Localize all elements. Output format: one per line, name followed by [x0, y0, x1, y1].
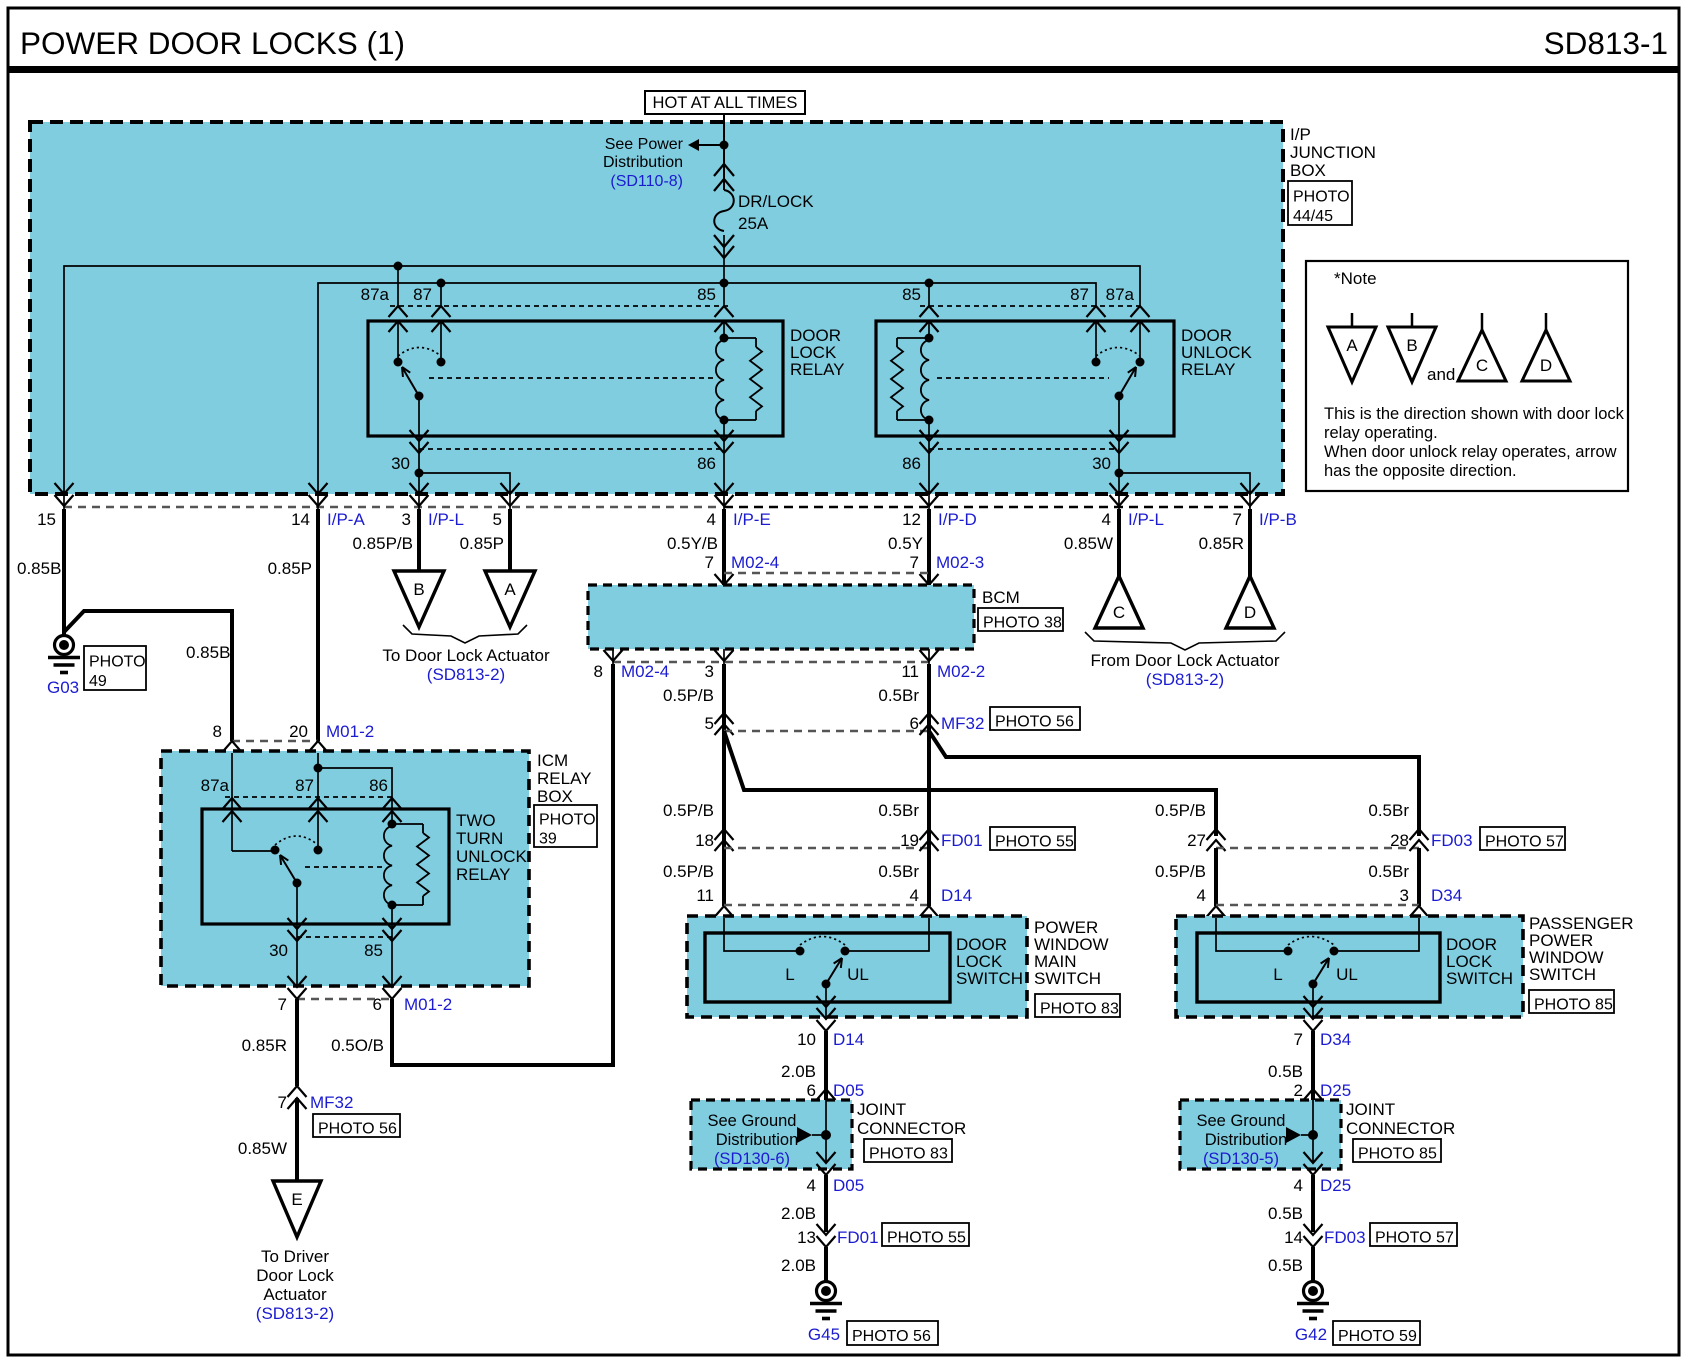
wire: D25 to FD03 [1311, 1175, 1315, 1232]
wire: D14 to D05 [824, 1031, 828, 1100]
PHOTO 55 box (FD01) [990, 827, 1075, 850]
svg-text:PHOTO 85: PHOTO 85 [1358, 1145, 1437, 1162]
PHOTO 59 box (G42) [1333, 1321, 1420, 1345]
svg-text:To Door Lock Actuator: To Door Lock Actuator [382, 646, 550, 665]
door lock actuator arrow D [1226, 576, 1274, 628]
svg-text:HOT AT ALL TIMES: HOT AT ALL TIMES [653, 94, 798, 112]
wire: branch 6 to passenger switch [929, 731, 1419, 836]
svg-text:D05: D05 [833, 1081, 864, 1100]
wire: through joint connector left [825, 1090, 827, 1163]
passenger switch UL contact [1330, 947, 1339, 956]
wire: relay2 87a to contact [1139, 321, 1141, 362]
relay1 coil bottom node [720, 416, 729, 425]
svg-text:(SD110-8): (SD110-8) [610, 173, 683, 190]
relay1 pin 30 connector [410, 430, 429, 441]
svg-text:7: 7 [278, 1093, 287, 1112]
passenger switch output arrow [1304, 996, 1323, 1007]
svg-text:0.5Y: 0.5Y [888, 534, 923, 553]
connector 13 FD01 [817, 1224, 836, 1235]
svg-text:PHOTO 56: PHOTO 56 [995, 713, 1074, 730]
svg-text:G42: G42 [1295, 1325, 1327, 1344]
wire: ICM 8 0.85B to ground [64, 611, 232, 741]
svg-text:I/P-D: I/P-D [938, 510, 977, 529]
svg-text:RELAY: RELAY [537, 769, 592, 788]
relay2 pin 87 connector [1087, 306, 1106, 317]
wire: bus1 (ground bus to 87a contacts) [64, 266, 1140, 494]
svg-text:0.5Br: 0.5Br [878, 862, 919, 881]
svg-text:See Ground: See Ground [708, 1112, 797, 1130]
wire: 15 to ground G03 [62, 509, 66, 634]
svg-text:7: 7 [1294, 1030, 1303, 1049]
relay1 pin dashed line [390, 305, 730, 307]
svg-text:SWITCH: SWITCH [1446, 969, 1513, 988]
relay2 coil [921, 340, 929, 420]
svg-text:UNLOCK: UNLOCK [456, 847, 528, 866]
svg-text:5: 5 [705, 714, 714, 733]
svg-text:PHOTO: PHOTO [89, 654, 146, 671]
relay1 mechanical link (dashed) [429, 377, 716, 379]
icm pin 86 connector [383, 798, 402, 809]
svg-text:RELAY: RELAY [456, 865, 511, 884]
joint right node [1308, 1130, 1318, 1140]
connector pin 5 at I/P box [501, 483, 520, 494]
svg-text:(SD813-2): (SD813-2) [1146, 670, 1224, 689]
svg-text:FD01: FD01 [941, 831, 983, 850]
relay1 pin 87a connector [389, 306, 408, 317]
svg-text:To Driver: To Driver [261, 1247, 329, 1266]
svg-text:18: 18 [695, 831, 714, 850]
wire: relay1 85 to coil [723, 321, 725, 338]
icm contact 87 [314, 846, 323, 855]
node: bus2 to relay1 87 [437, 279, 446, 288]
note box [1306, 261, 1628, 491]
svg-text:MF32: MF32 [941, 714, 984, 733]
relay2 coil suppression resistor [897, 337, 929, 339]
I/P harness dashed line (gray left) [64, 506, 718, 508]
svg-text:0.5P/B: 0.5P/B [663, 686, 714, 705]
svg-text:has the opposite direction.: has the opposite direction. [1324, 462, 1517, 480]
svg-text:PHOTO 85: PHOTO 85 [1534, 996, 1613, 1013]
wire: passenger switch output [1312, 984, 1314, 1017]
wire: relay2 30 to connector 4 [1118, 473, 1120, 494]
PHOTO 56 box (G45) [847, 1321, 938, 1345]
fuse output arrows (down chevrons) [714, 235, 734, 247]
svg-text:I/P-L: I/P-L [428, 510, 464, 529]
icm pin 30 connector [288, 918, 307, 929]
svg-text:I/P-E: I/P-E [733, 510, 771, 529]
relay1 coil [716, 340, 724, 420]
connector 27 FD03 [1207, 829, 1226, 840]
relay1 switch lever [402, 367, 419, 396]
connector 28 FD03 [1410, 829, 1429, 840]
svg-text:D05: D05 [833, 1176, 864, 1195]
wire: relay1 87 to contact [440, 321, 442, 362]
wire: bus2 (power bus) [318, 283, 1096, 494]
svg-text:FD03: FD03 [1324, 1228, 1366, 1247]
relay1 pin 85 connector [715, 306, 734, 317]
I/P harness dashed line (dark right) [724, 506, 1250, 509]
icm pin 87a connector [223, 798, 242, 809]
svg-text:PHOTO: PHOTO [539, 812, 596, 829]
svg-text:See Power: See Power [605, 136, 684, 153]
ground G42 symbol [1304, 1282, 1323, 1301]
wire: driver switch output [825, 984, 827, 1017]
wire: relay2 30 down [1118, 436, 1120, 473]
door lock relay box [368, 321, 783, 436]
connector 4 D14 [920, 906, 939, 917]
svg-text:13: 13 [797, 1228, 816, 1247]
driver switch throw arc [800, 937, 845, 946]
relay2 pin 86 connector [920, 430, 939, 441]
wire: relay2 87 to contact [1095, 321, 1097, 362]
PHOTO 57 box (14 FD03) [1370, 1223, 1457, 1246]
svg-text:87a: 87a [361, 285, 390, 304]
wire: 28 down [1417, 848, 1421, 906]
relay2 pin dashed line [920, 305, 1145, 307]
svg-text:87a: 87a [1106, 285, 1135, 304]
wire: relay2 pivot to pin 30 [1118, 396, 1120, 436]
svg-text:A: A [1346, 336, 1358, 355]
svg-text:I/P-L: I/P-L [1128, 510, 1164, 529]
svg-text:D: D [1540, 356, 1552, 375]
ground G45 symbol [817, 1282, 836, 1301]
svg-text:87: 87 [413, 285, 432, 304]
ICM connector 8 [223, 741, 242, 752]
svg-text:85: 85 [364, 941, 383, 960]
connector pin 4 I/P-L at I/P box [1110, 483, 1129, 494]
joint right arrow to ground dist [1286, 1127, 1301, 1143]
svg-text:4: 4 [1102, 510, 1111, 529]
wire: FD01 to ground G45 [824, 1247, 828, 1282]
connector 6 D05 [817, 1089, 836, 1100]
svg-text:(SD130-6): (SD130-6) [714, 1150, 790, 1168]
joint left arrow to ground dist [797, 1127, 812, 1143]
row dashed 11-4 [724, 904, 929, 906]
svg-text:PHOTO 83: PHOTO 83 [869, 1145, 948, 1162]
svg-text:2.0B: 2.0B [781, 1256, 816, 1275]
relay2 switch lever [1119, 367, 1136, 396]
icm contact throw arc [275, 836, 318, 845]
passenger switch L contact [1284, 947, 1293, 956]
svg-text:8: 8 [213, 722, 222, 741]
svg-text:M01-2: M01-2 [326, 722, 374, 741]
icm mechanical link (dashed) [305, 866, 385, 868]
svg-text:JUNCTION: JUNCTION [1290, 143, 1376, 162]
svg-text:(SD813-2): (SD813-2) [256, 1304, 334, 1323]
svg-text:0.5P/B: 0.5P/B [663, 801, 714, 820]
BCM pin 8 M02-4 connector [604, 650, 623, 661]
wire: branch to I/P-B 7 [1119, 473, 1250, 492]
wire: branch to I/P-L 5 [419, 473, 510, 492]
node: icm 87/86 branch [314, 764, 323, 773]
HOT AT ALL TIMES label [645, 91, 805, 114]
passenger power window switch box (cyan, dashed) [1176, 916, 1523, 1017]
svg-text:86: 86 [369, 776, 388, 795]
svg-text:Distribution: Distribution [716, 1131, 799, 1149]
svg-text:G03: G03 [47, 678, 79, 697]
wire: pin 3 to UL contact [1337, 918, 1419, 951]
svg-text:*Note: *Note [1334, 269, 1377, 288]
svg-text:0.85R: 0.85R [1199, 534, 1244, 553]
wire: pin 11 to L contact [724, 918, 797, 951]
svg-text:From Door Lock Actuator: From Door Lock Actuator [1091, 651, 1280, 670]
svg-text:I/P: I/P [1290, 125, 1311, 144]
svg-text:SD813-1: SD813-1 [1544, 25, 1668, 61]
svg-text:D25: D25 [1320, 1176, 1351, 1195]
relay2 bottom pin dashed line [929, 448, 1119, 450]
svg-text:0.85W: 0.85W [1064, 534, 1113, 553]
svg-text:FD01: FD01 [837, 1228, 879, 1247]
arrow to See Power Distribution [699, 144, 724, 146]
svg-text:M02-2: M02-2 [937, 662, 985, 681]
connector 19 FD01 [920, 829, 939, 840]
svg-text:SWITCH: SWITCH [1529, 965, 1596, 984]
BCM pin 11 M02-2 connector [920, 650, 939, 661]
wire: branch to icm 86 [318, 768, 392, 824]
svg-text:0.5Br: 0.5Br [878, 686, 919, 705]
relay2 pin 30 connector [1110, 430, 1129, 441]
svg-text:4: 4 [1197, 886, 1206, 905]
wire: icm coil to pin 85 [391, 905, 393, 924]
driver switch L contact [796, 947, 805, 956]
svg-text:BCM: BCM [982, 588, 1020, 607]
svg-text:14: 14 [1284, 1228, 1303, 1247]
relay2 contact throw arc [1096, 348, 1140, 357]
connector pin 7 I/P-B at I/P box [1241, 483, 1260, 494]
svg-text:E: E [291, 1190, 302, 1209]
wire: I/P-B 7 to actuator D [1248, 509, 1252, 577]
wire: relay1 86 to connector 4 [723, 436, 725, 494]
svg-text:0.5Y/B: 0.5Y/B [667, 534, 718, 553]
svg-text:86: 86 [697, 454, 716, 473]
wire: 5 to actuator A [508, 509, 512, 571]
driver switch pivot [822, 980, 831, 989]
header separator bar [8, 66, 1679, 73]
wire: MF32 to actuator E [295, 1098, 299, 1181]
svg-text:0.85P: 0.85P [268, 559, 312, 578]
svg-text:B: B [1406, 336, 1417, 355]
svg-text:0.5P/B: 0.5P/B [663, 862, 714, 881]
svg-text:0.85R: 0.85R [242, 1036, 287, 1055]
joint right exit connector [1304, 1152, 1323, 1163]
svg-text:SWITCH: SWITCH [956, 969, 1023, 988]
wire: pin 4 to L contact [1216, 918, 1285, 951]
svg-text:JOINT: JOINT [1346, 1100, 1395, 1119]
svg-text:PHOTO 83: PHOTO 83 [1040, 1000, 1119, 1017]
wire: icm pivot to pin 30 [296, 883, 298, 924]
wire: fuse to bus2 [723, 235, 725, 306]
svg-text:30: 30 [391, 454, 410, 473]
node: bus2 to relay2 85 [925, 279, 934, 288]
svg-text:6: 6 [807, 1081, 816, 1100]
node: battery feed junction [720, 141, 729, 150]
icm connector 7 (M01-2) [288, 976, 307, 987]
svg-text:0.5B: 0.5B [1268, 1204, 1303, 1223]
row dashed 5-6 [724, 730, 929, 732]
svg-text:5: 5 [493, 510, 502, 529]
icm lever pivot [293, 879, 302, 888]
svg-text:85: 85 [697, 285, 716, 304]
svg-text:MF32: MF32 [310, 1093, 353, 1112]
relay1 bottom pin dashed line [419, 448, 724, 450]
BCM pin 7 M02-3 connector [920, 574, 939, 585]
svg-text:87: 87 [1070, 285, 1089, 304]
driver door lock actuator arrow E [273, 1181, 321, 1237]
relay1 coil top node [720, 334, 729, 343]
wire: icm 85 to box edge [391, 924, 393, 986]
svg-text:G45: G45 [808, 1325, 840, 1344]
PHOTO 85 box (switch) [1529, 990, 1614, 1013]
svg-text:D25: D25 [1320, 1081, 1351, 1100]
svg-text:2.0B: 2.0B [781, 1204, 816, 1223]
svg-text:7: 7 [1233, 510, 1242, 529]
svg-text:27: 27 [1187, 831, 1206, 850]
joint left exit connector [817, 1152, 836, 1163]
wire: relay1 coil to pin 86 [723, 420, 725, 436]
svg-text:6: 6 [373, 995, 382, 1014]
I/P junction box (cyan, dashed) [30, 122, 1283, 494]
svg-text:Door Lock: Door Lock [256, 1266, 334, 1285]
door lock actuator arrow C [1095, 576, 1143, 628]
ICM connector 20 M01-2 [309, 741, 328, 752]
wire: BCM 3 down to switch [722, 664, 726, 906]
svg-text:0.5P/B: 0.5P/B [1155, 862, 1206, 881]
relay1 pin 87 connector [432, 306, 451, 317]
svg-text:0.85B: 0.85B [17, 559, 61, 578]
svg-text:UL: UL [847, 965, 869, 984]
ICM harness dashed (M01-2) [232, 740, 318, 742]
svg-text:12: 12 [902, 510, 921, 529]
svg-text:(SD130-5): (SD130-5) [1203, 1150, 1279, 1168]
svg-text:7: 7 [910, 553, 919, 572]
note triangle A [1351, 313, 1354, 327]
svg-text:PHOTO 56: PHOTO 56 [852, 1328, 931, 1345]
svg-text:POWER DOOR LOCKS (1): POWER DOOR LOCKS (1) [20, 25, 405, 61]
svg-text:RELAY: RELAY [1181, 360, 1236, 379]
svg-text:UL: UL [1336, 965, 1358, 984]
svg-text:20: 20 [289, 722, 308, 741]
svg-text:86: 86 [902, 454, 921, 473]
connector 4 D34 [1207, 906, 1226, 917]
relay1 contact 87a [394, 358, 403, 367]
svg-text:7: 7 [705, 553, 714, 572]
svg-text:2: 2 [1294, 1081, 1303, 1100]
joint connector box left (cyan, dashed) [691, 1100, 852, 1169]
svg-text:JOINT: JOINT [857, 1100, 906, 1119]
icm bottom pin dashed line [297, 936, 392, 938]
svg-text:I/P-A: I/P-A [327, 510, 365, 529]
wire: BCM 11 down to switch [927, 664, 931, 906]
door unlock relay box [876, 321, 1174, 436]
connector 6 MF32 [920, 713, 939, 724]
svg-text:M02-4: M02-4 [731, 553, 779, 572]
svg-text:PHOTO 59: PHOTO 59 [1338, 1328, 1417, 1345]
svg-text:0.85B: 0.85B [186, 643, 230, 662]
relay2 coil top node [925, 334, 934, 343]
wire: icm 7 0.85R down [295, 999, 299, 1086]
svg-text:3: 3 [1400, 886, 1409, 905]
svg-text:0.85P/B: 0.85P/B [353, 534, 414, 553]
wire: relay1 87a to contact [397, 321, 399, 362]
connector pin 3 I/P-L at I/P box [410, 483, 429, 494]
relay1 contact 87 [437, 358, 446, 367]
icm bottom harness dashed [297, 998, 392, 1000]
svg-text:BOX: BOX [1290, 161, 1326, 180]
svg-text:30: 30 [269, 941, 288, 960]
svg-text:D34: D34 [1320, 1030, 1351, 1049]
svg-text:C: C [1476, 356, 1488, 375]
wire: 8 into icm [231, 753, 233, 851]
svg-text:3: 3 [705, 662, 714, 681]
svg-text:PHOTO 55: PHOTO 55 [995, 833, 1074, 850]
joint connector box right (cyan, dashed) [1180, 1100, 1341, 1169]
svg-text:relay operating.: relay operating. [1324, 424, 1438, 442]
svg-text:0.5Br: 0.5Br [1368, 801, 1409, 820]
door lock switch box (driver) [705, 933, 950, 1002]
icm pin 87 connector [309, 798, 328, 809]
svg-text:19: 19 [900, 831, 919, 850]
svg-text:0.85P: 0.85P [460, 534, 504, 553]
icm pin 85 connector [383, 918, 402, 929]
svg-text:Distribution: Distribution [603, 154, 683, 171]
door lock switch box (passenger) [1197, 933, 1440, 1002]
connector pin 4 I/P-E at I/P box [715, 483, 734, 494]
wire: bus2 drop to relay1 87 [440, 283, 442, 306]
svg-text:11: 11 [696, 886, 714, 905]
brace under C/D [1085, 632, 1285, 650]
svg-text:D34: D34 [1431, 886, 1462, 905]
svg-text:L: L [785, 965, 794, 984]
fuse DR/LOCK 25A body [714, 190, 734, 231]
svg-text:C: C [1113, 603, 1125, 622]
icm coil suppression resistor [392, 823, 423, 825]
ground G03 symbol [55, 636, 74, 655]
relay2 mechanical link (dashed) [937, 377, 1109, 379]
PHOTO 57 box (FD03) [1480, 827, 1565, 850]
note triangle D [1545, 313, 1548, 330]
door lock actuator arrow B [394, 571, 444, 627]
row dashed 4-3 (D34) [1216, 904, 1419, 906]
relay2 coil bottom node [925, 416, 934, 425]
svg-text:4: 4 [807, 1176, 816, 1195]
icm relay pin dashed line [225, 796, 392, 798]
svg-text:0.5Br: 0.5Br [878, 801, 919, 820]
svg-text:I/P-B: I/P-B [1259, 510, 1297, 529]
fuse feed arrows (up chevrons) [714, 164, 734, 176]
node: bus1 to relay1 87a [394, 262, 403, 271]
svg-text:A: A [504, 580, 516, 599]
svg-text:M02-3: M02-3 [936, 553, 984, 572]
relay1 pin 86 connector [715, 430, 734, 441]
relay2 pin 85 connector [920, 306, 939, 317]
icm coil bottom node [388, 901, 397, 910]
wire: D34 to D25 [1311, 1031, 1315, 1100]
wire: icm 6 0.5O/B to BCM 8 [392, 664, 613, 1065]
svg-text:4: 4 [1294, 1176, 1303, 1195]
svg-text:25A: 25A [738, 214, 769, 233]
relay2 contact 87 [1092, 358, 1101, 367]
svg-text:SWITCH: SWITCH [1034, 969, 1101, 988]
svg-text:3: 3 [402, 510, 411, 529]
svg-text:CONNECTOR: CONNECTOR [857, 1119, 966, 1138]
svg-text:See Ground: See Ground [1197, 1112, 1286, 1130]
svg-text:L: L [1273, 965, 1282, 984]
PHOTO 85 box (joint right) [1353, 1139, 1441, 1162]
svg-text:PHOTO 56: PHOTO 56 [318, 1120, 397, 1137]
node: bus2 fuse junction [720, 279, 729, 288]
svg-text:10: 10 [797, 1030, 816, 1049]
PHOTO 49 box [84, 646, 146, 690]
